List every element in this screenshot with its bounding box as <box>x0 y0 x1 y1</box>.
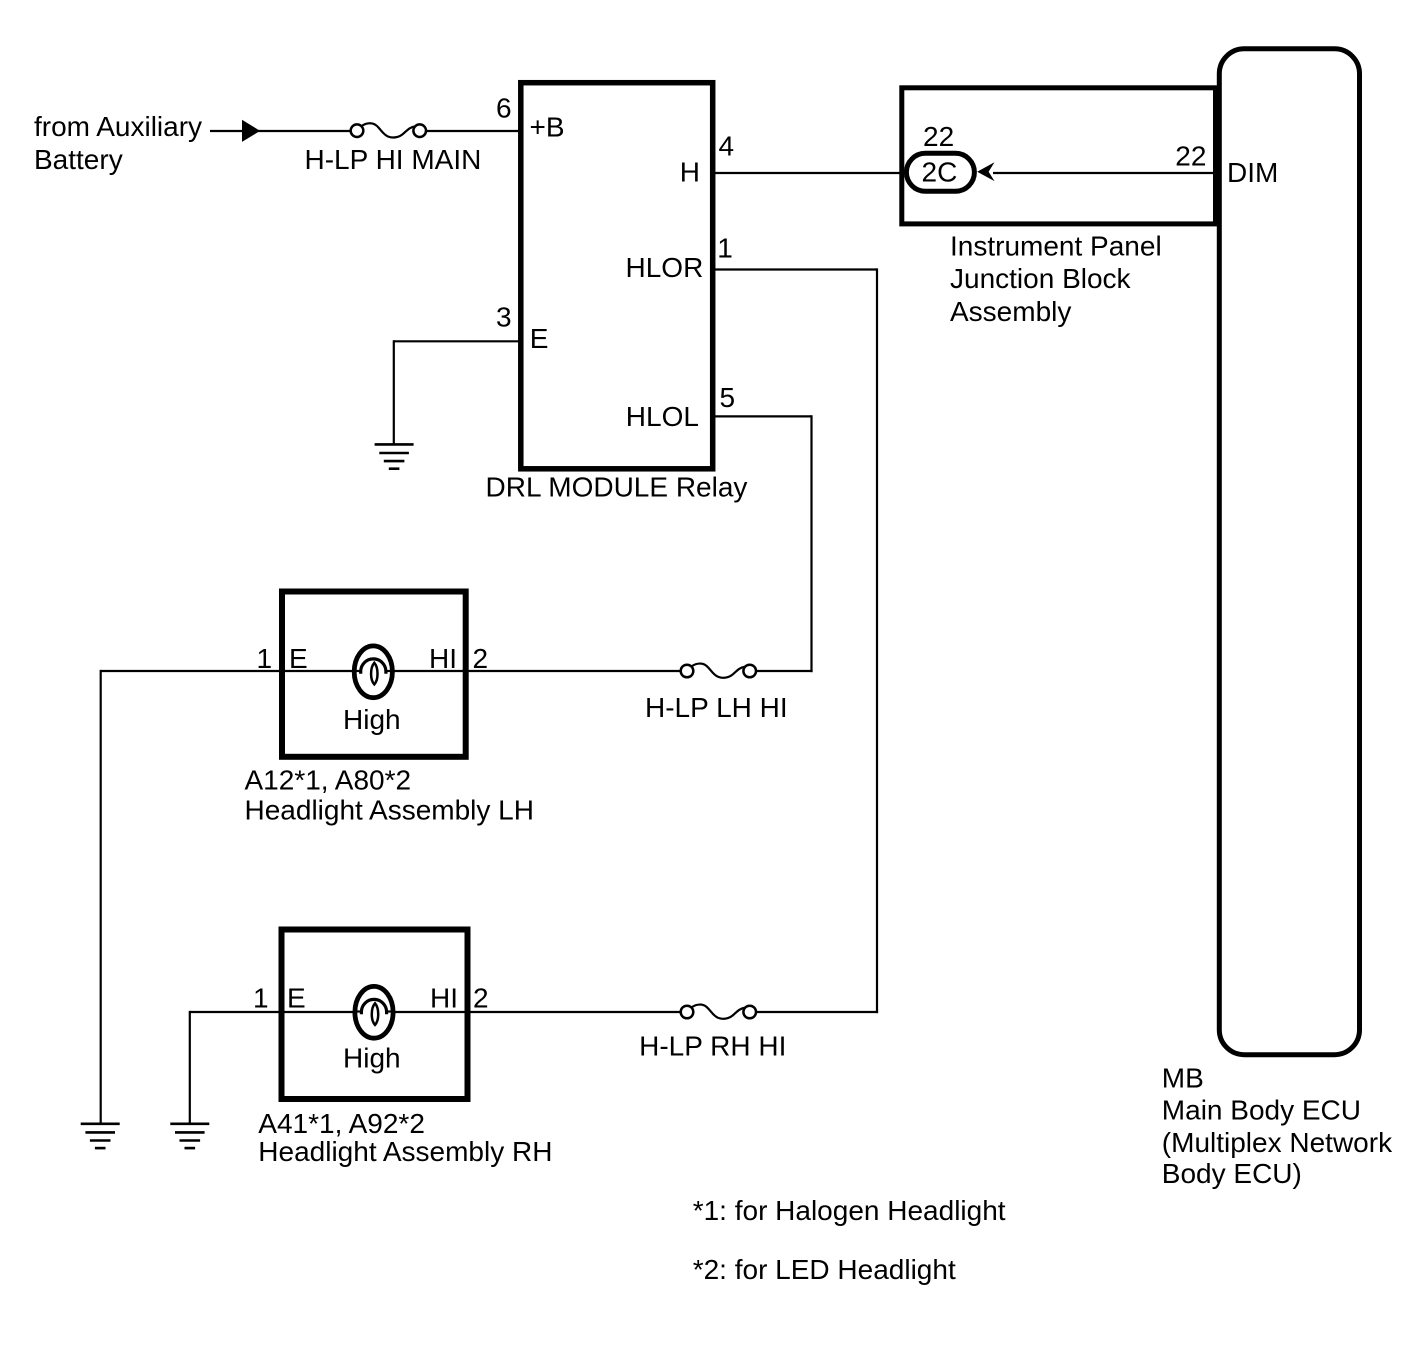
wire RH E vertical down to ground <box>189 1011 191 1124</box>
wire RH headlight E pin 1 horizontal <box>190 1011 374 1013</box>
fuse H-LP RH HI <box>681 1005 756 1019</box>
ground (LH headlight) <box>81 1124 120 1148</box>
fuse H-LP LH HI <box>681 664 756 678</box>
DRL MODULE Relay box <box>521 83 713 469</box>
svg-text:HI: HI <box>429 643 457 674</box>
Main Body ECU rounded box <box>1219 49 1359 1055</box>
svg-text:Instrument Panel: Instrument Panel <box>950 230 1162 261</box>
svg-text:1: 1 <box>253 983 269 1014</box>
svg-text:2C: 2C <box>922 157 958 188</box>
wire DRL pin 5 HLOL horizontal <box>714 415 812 417</box>
svg-text:2: 2 <box>473 643 489 674</box>
ground (RH headlight) <box>170 1124 209 1148</box>
svg-text:HLOL: HLOL <box>626 401 699 432</box>
arrow from Auxiliary Battery <box>242 120 260 142</box>
svg-text:1: 1 <box>257 643 273 674</box>
svg-text:Headlight Assembly RH: Headlight Assembly RH <box>258 1136 552 1167</box>
svg-text:E: E <box>287 983 306 1014</box>
svg-text:E: E <box>289 643 308 674</box>
svg-text:H-LP HI MAIN: H-LP HI MAIN <box>305 144 482 175</box>
svg-text:*2: for LED Headlight: *2: for LED Headlight <box>693 1254 956 1285</box>
wire RH headlight HI pin 2 to fuse <box>374 1011 681 1013</box>
svg-text:Battery: Battery <box>34 144 123 175</box>
svg-text:A41*1, A92*2: A41*1, A92*2 <box>258 1108 425 1139</box>
svg-text:A12*1, A80*2: A12*1, A80*2 <box>245 765 412 796</box>
wire arrow to Main Body ECU DIM pin 22 <box>993 172 1218 174</box>
arrowhead into 2C <box>977 162 994 181</box>
wire DRL pin 1 HLOR horizontal <box>714 268 877 270</box>
wire E vertical to ground <box>393 340 395 444</box>
svg-text:H-LP LH HI: H-LP LH HI <box>645 692 788 723</box>
svg-text:High: High <box>343 1043 401 1074</box>
LH headlight assembly box <box>282 592 466 757</box>
Instrument Panel Junction Block Assembly box <box>902 88 1216 224</box>
svg-text:22: 22 <box>1175 140 1206 171</box>
svg-text:H: H <box>680 156 700 187</box>
wire LH headlight HI pin 2 to fuse <box>373 670 681 672</box>
svg-text:E: E <box>530 323 549 354</box>
wire RH bulb internal stubs <box>356 1011 363 1013</box>
svg-text:DRL MODULE Relay: DRL MODULE Relay <box>486 472 748 503</box>
svg-text:Main Body ECU: Main Body ECU <box>1162 1095 1361 1126</box>
svg-text:2: 2 <box>473 983 489 1014</box>
ground (DRL module E) <box>375 444 414 468</box>
svg-text:4: 4 <box>719 131 735 162</box>
svg-text:MB: MB <box>1162 1063 1204 1094</box>
svg-text:(Multiplex Network: (Multiplex Network <box>1162 1127 1393 1158</box>
svg-text:6: 6 <box>496 92 512 123</box>
svg-text:1: 1 <box>717 233 733 264</box>
svg-text:HLOR: HLOR <box>626 252 704 283</box>
svg-text:3: 3 <box>496 302 512 333</box>
svg-text:22: 22 <box>923 121 954 152</box>
svg-text:HI: HI <box>430 983 458 1014</box>
svg-text:Body ECU): Body ECU) <box>1162 1158 1302 1189</box>
wire LH headlight E pin 1 horizontal <box>101 670 373 672</box>
wire DRL pin 3 E horizontal <box>394 340 520 342</box>
svg-text:Headlight Assembly LH: Headlight Assembly LH <box>245 794 534 825</box>
svg-text:High: High <box>343 704 401 735</box>
svg-text:H-LP RH HI: H-LP RH HI <box>639 1031 786 1062</box>
wire battery feed to fuse H-LP HI MAIN <box>210 130 351 132</box>
connector oval 2C <box>906 153 974 191</box>
wire LH HI fuse to HLOL corner <box>756 670 813 672</box>
bulb High (RH) <box>355 986 393 1038</box>
wire RH HI fuse to HLOR corner <box>756 1011 878 1013</box>
wire DRL pin 4 H to junction block 2C <box>714 172 905 174</box>
svg-text:Assembly: Assembly <box>950 296 1071 327</box>
wire fuse to DRL +B pin 6 <box>426 130 520 132</box>
svg-text:Junction Block: Junction Block <box>950 263 1132 294</box>
RH headlight assembly box <box>282 930 468 1100</box>
fuse H-LP HI MAIN <box>351 123 426 137</box>
bulb High (LH) <box>354 646 392 698</box>
svg-text:5: 5 <box>720 382 736 413</box>
svg-text:*1: for Halogen Headlight: *1: for Halogen Headlight <box>693 1195 1006 1226</box>
wire HLOR vertical down <box>876 268 878 1013</box>
svg-text:from Auxiliary: from Auxiliary <box>34 111 202 142</box>
svg-text:+B: +B <box>530 112 565 143</box>
svg-text:DIM: DIM <box>1227 157 1278 188</box>
wire LH bulb internal stubs <box>355 670 362 672</box>
wire LH E vertical down to ground <box>100 670 102 1124</box>
wire HLOL vertical down <box>810 415 812 672</box>
